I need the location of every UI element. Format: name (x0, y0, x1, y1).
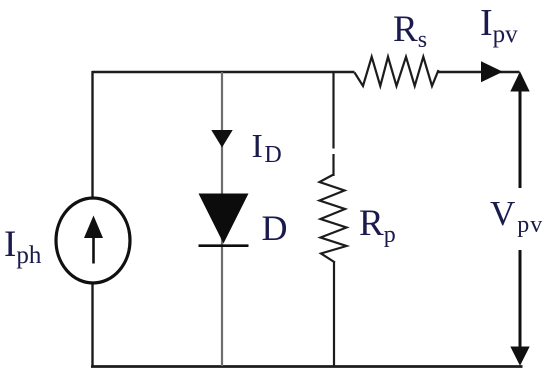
label Rp (359, 203, 396, 248)
wire Rp branch upper (with small gap) (332, 71, 334, 176)
resistor Rs (horizontal zigzag) (355, 57, 439, 86)
current source U1 Iph (circle) (56, 198, 130, 283)
label Rs (393, 9, 427, 53)
wire bottom (common return) (91, 365, 523, 368)
wire top (node between Iph, D, Rp, Rs) (92, 71, 520, 73)
voltage arrow Vpv lower segment (arrowhead down at bottom wire) (510, 250, 529, 366)
resistor Rp (vertical zigzag) (320, 175, 347, 263)
voltage arrow Vpv upper segment (arrowhead up at node) (510, 72, 529, 189)
wire Rp branch lower (333, 263, 335, 367)
svg-text:D: D (262, 208, 288, 248)
wire left branch (91, 71, 93, 367)
arrow ID current direction (down) (211, 130, 232, 148)
wire diode branch (gray vertical) (221, 72, 223, 366)
current source arrow (inside circle, pointing up) (84, 216, 103, 264)
label Ipv (480, 2, 518, 48)
arrow Ipv current direction (right, on top wire) (481, 61, 503, 82)
label ID (252, 128, 282, 168)
diode D (triangle + cathode bar) (199, 194, 249, 246)
label Vpv (490, 194, 543, 238)
label D (262, 208, 288, 248)
label Iph (4, 224, 42, 269)
